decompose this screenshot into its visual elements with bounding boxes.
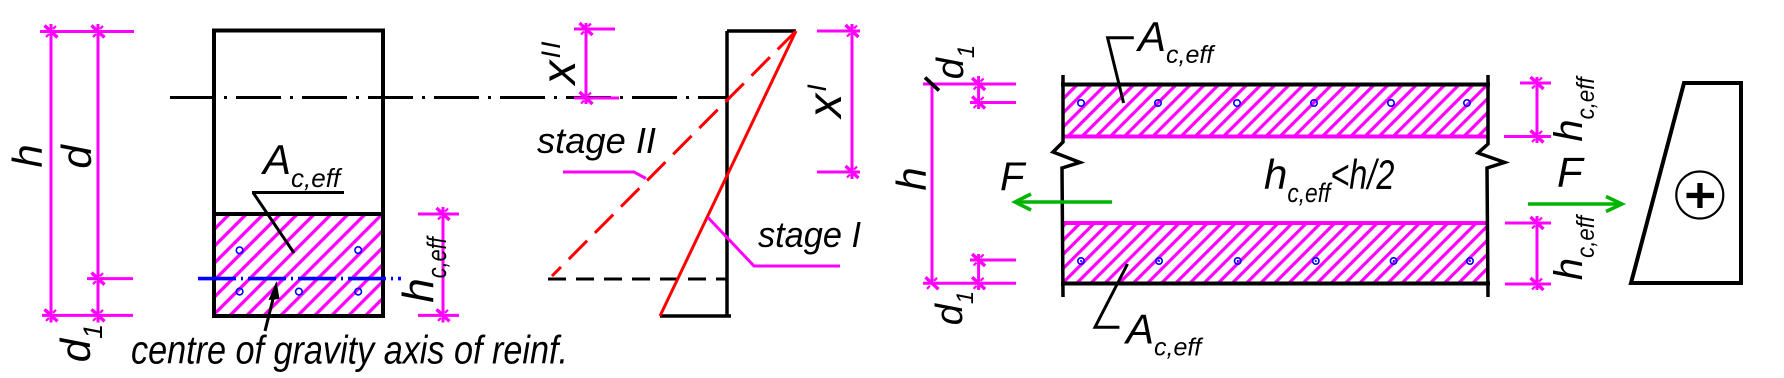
svg-text:h: h	[888, 167, 935, 190]
svg-text:h: h	[4, 144, 51, 167]
svg-text:stage II: stage II	[537, 120, 656, 161]
svg-text:centre of gravity axis of rein: centre of gravity axis of reinf.	[131, 329, 568, 373]
svg-text:F: F	[1557, 149, 1585, 196]
svg-text:d: d	[53, 144, 100, 169]
svg-text:F: F	[1000, 155, 1027, 199]
svg-text:stage I: stage I	[758, 214, 861, 255]
